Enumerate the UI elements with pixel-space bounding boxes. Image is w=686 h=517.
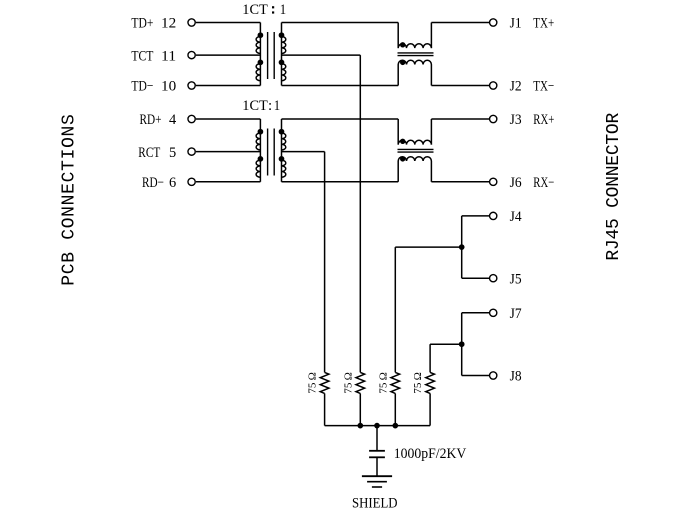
svg-text:1: 1 xyxy=(274,98,280,114)
transformer T2 primary polarity dot (top) xyxy=(258,129,263,134)
choke CMC1 top winding xyxy=(397,23,399,49)
wire resistor R1 bottom lead to bus xyxy=(324,393,326,425)
svg-text:TD−: TD− xyxy=(131,79,153,95)
svg-text:75 Ω: 75 Ω xyxy=(377,372,389,393)
svg-text:PCB CONNECTIONS: PCB CONNECTIONS xyxy=(60,113,80,285)
terminal circle TD- (pin 10) xyxy=(188,82,195,89)
svg-text:J5: J5 xyxy=(510,271,522,287)
junction on bus at R2 xyxy=(358,423,363,428)
terminal circle RD- (pin 6) xyxy=(188,178,195,185)
svg-text:J2: J2 xyxy=(510,79,522,95)
svg-text:1000pF/2KV: 1000pF/2KV xyxy=(394,446,467,462)
svg-text:75 Ω: 75 Ω xyxy=(342,372,354,393)
wire node A to resistor R3 xyxy=(395,246,461,248)
resistor R3 75 ohm xyxy=(391,372,400,393)
wire T1 secondary top to choke CMC1 xyxy=(282,22,399,24)
svg-text:6: 6 xyxy=(169,175,177,191)
wire resistor R4 bottom lead to bus xyxy=(429,393,431,425)
wire TD+ pin12 to T1 primary top xyxy=(196,22,260,24)
svg-text::: : xyxy=(268,98,272,114)
wire J5 to junction node A xyxy=(462,277,490,279)
wire choke CMC1 to J2 xyxy=(431,85,489,87)
transformer T1 secondary winding xyxy=(281,23,283,86)
wire TD- pin10 to T1 primary bottom xyxy=(196,85,260,87)
junction on bus at R3 xyxy=(393,423,398,428)
choke CMC2 bottom winding xyxy=(397,161,399,182)
svg-text:RX−: RX− xyxy=(533,175,554,191)
choke CMC2 top winding polarity dot xyxy=(401,139,405,143)
wire resistor R3 bottom lead to bus xyxy=(394,393,396,425)
transformer T1 secondary polarity dot (top) xyxy=(279,33,284,38)
choke CMC1 bottom winding xyxy=(397,65,399,86)
svg-text:1: 1 xyxy=(280,2,286,18)
svg-text:J3: J3 xyxy=(510,112,522,128)
terminal circle RCT (pin 5) xyxy=(188,148,195,155)
svg-text:J8: J8 xyxy=(510,369,522,385)
terminal circle J6 (RJ45) xyxy=(490,178,497,185)
svg-text:J7: J7 xyxy=(510,306,522,322)
svg-text:J6: J6 xyxy=(510,175,522,191)
svg-text:10: 10 xyxy=(161,79,176,95)
terminal circle J1 (RJ45) xyxy=(490,19,497,26)
wire bus to capacitor C1 xyxy=(376,426,378,451)
wire choke CMC1 to J1 xyxy=(431,22,489,24)
transformer T2 secondary polarity dot (top) xyxy=(279,129,284,134)
svg-text:RCT: RCT xyxy=(138,145,160,161)
resistor R4 75 ohm xyxy=(426,372,435,393)
transformer T2 primary polarity dot (bottom half) xyxy=(258,157,263,162)
svg-text:4: 4 xyxy=(169,112,177,128)
svg-text:TD+: TD+ xyxy=(131,16,153,32)
ground (SHIELD earth symbol) xyxy=(362,475,392,477)
transformer T2 secondary polarity dot (bottom half) xyxy=(279,157,284,162)
terminal circle J8 (RJ45) xyxy=(490,372,497,379)
transformer T1 primary polarity dot (top) xyxy=(258,33,263,38)
transformer T1 primary polarity dot (bottom half) xyxy=(258,60,263,65)
transformer T1 core xyxy=(267,32,269,79)
svg-text:RD+: RD+ xyxy=(140,112,162,128)
terminal circle TCT (pin 11) xyxy=(188,51,195,58)
terminal circle TD+ (pin 12) xyxy=(188,19,195,26)
choke CMC2 bottom winding polarity dot xyxy=(401,157,405,161)
transformer T1 primary winding xyxy=(259,23,261,86)
choke CMC1 top winding polarity dot xyxy=(401,43,405,47)
choke CMC2 top winding xyxy=(397,119,399,145)
wire resistor R2 bottom lead to bus xyxy=(359,393,361,425)
svg-text:SHIELD: SHIELD xyxy=(352,496,398,512)
terminal circle J4 (RJ45) xyxy=(490,212,497,219)
svg-text:RJ45 CONNECTOR: RJ45 CONNECTOR xyxy=(604,113,624,261)
svg-text:RD−: RD− xyxy=(142,175,164,191)
svg-text:TX+: TX+ xyxy=(533,16,554,32)
choke CMC1 bottom winding polarity dot xyxy=(401,60,405,64)
wire RD+ pin4 to T2 primary top xyxy=(196,118,260,120)
wire node B to resistor R4 xyxy=(430,343,462,345)
svg-text:12: 12 xyxy=(161,16,176,32)
wire T1 secondary center tap to resistor R2 (node CT1) xyxy=(282,54,361,56)
wire capacitor C1 to shield ground xyxy=(376,457,378,476)
svg-text:11: 11 xyxy=(161,48,176,64)
svg-text:5: 5 xyxy=(169,145,176,161)
wire T2 secondary center tap to resistor R1 (node CT2) xyxy=(282,151,325,153)
svg-text:75 Ω: 75 Ω xyxy=(307,372,319,393)
transformer T2 secondary winding xyxy=(281,119,283,182)
junction on bus at capacitor C1 xyxy=(375,423,380,428)
wire RD- pin6 to T2 primary bottom xyxy=(196,181,260,183)
wire T1 secondary bottom to choke CMC1 xyxy=(282,85,399,87)
svg-text:1CT: 1CT xyxy=(242,98,267,114)
terminal circle J7 (RJ45) xyxy=(490,309,497,316)
svg-text:TCT: TCT xyxy=(131,48,153,64)
wire T2 secondary top to choke CMC2 xyxy=(282,118,399,120)
resistor R2 75 ohm xyxy=(356,372,365,393)
transformer T2 core xyxy=(267,129,269,176)
choke CMC2 core xyxy=(398,148,434,150)
svg-text:TX−: TX− xyxy=(533,79,554,95)
wire termination bus (resistor commons) xyxy=(325,425,431,427)
wire J7 to junction node B xyxy=(462,312,490,314)
transformer T1 secondary polarity dot (bottom half) xyxy=(279,60,284,65)
svg-text:J1: J1 xyxy=(510,16,522,32)
svg-text:75 Ω: 75 Ω xyxy=(412,372,424,393)
wire TCT pin11 to T1 primary center tap xyxy=(196,54,260,56)
terminal circle J3 (RJ45) xyxy=(490,115,497,122)
wire choke CMC2 to J6 xyxy=(431,181,489,183)
wire RCT pin5 to T2 primary center tap xyxy=(196,151,260,153)
choke CMC1 core xyxy=(398,52,434,54)
svg-text:RX+: RX+ xyxy=(533,112,554,128)
wire J4 to junction node A xyxy=(462,215,490,217)
svg-text:J4: J4 xyxy=(510,209,522,225)
terminal circle RD+ (pin 4) xyxy=(188,115,195,122)
capacitor C1 1000pF/2KV xyxy=(369,450,385,452)
junction node B (J7/J8 tie) xyxy=(459,342,464,347)
wire T2 secondary bottom to choke CMC2 xyxy=(282,181,399,183)
wire J8 to junction node B xyxy=(462,375,490,377)
terminal circle J5 (RJ45) xyxy=(490,275,497,282)
resistor R1 75 ohm xyxy=(320,372,329,393)
terminal circle J2 (RJ45) xyxy=(490,82,497,89)
junction node A (J4/J5 tie) xyxy=(459,245,464,250)
svg-text:1CT: 1CT xyxy=(242,2,267,18)
transformer T2 primary winding xyxy=(259,119,261,182)
wire choke CMC2 to J3 xyxy=(431,118,489,120)
